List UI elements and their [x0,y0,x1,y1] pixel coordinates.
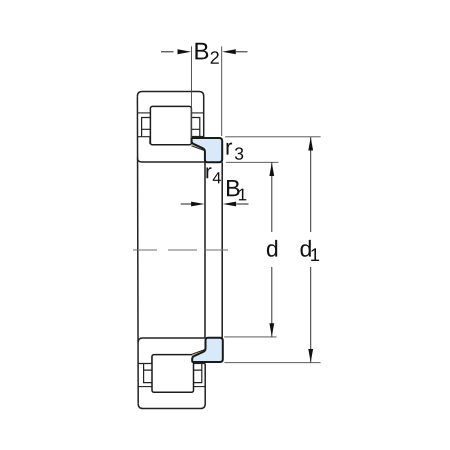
chamfer sliver bottom (tan) [192,349,206,358]
outer ring land line bottom left [138,386,152,388]
label glyph r4-r [206,167,211,178]
roller bottom [152,355,194,393]
label glyph B1-B [227,180,240,196]
d arrow down [269,323,274,336]
B1 arrow right [223,202,236,207]
d1 dimension line upper [310,137,312,232]
label glyph r3-3 [235,147,243,159]
angle ring sleeve left edge [204,162,206,338]
inner ring flange bottom left [138,356,152,364]
chamfer edge line top [191,146,205,151]
label glyph B1-1 [239,189,246,201]
inner ring bore line top [137,158,205,162]
d dimension line lower [271,267,273,337]
roller top [150,106,191,144]
label glyph d-d [267,240,277,257]
cage bottom left [144,364,153,383]
d top extension line [226,161,278,163]
label glyph d1-d [301,240,311,257]
B1 arrow left [181,203,193,205]
chamfer sliver top (tan) [191,142,205,151]
outer ring land line bottom right [194,386,206,388]
angle ring sleeve right edge [221,162,223,338]
bearing left face [136,96,139,403]
label glyph r3-r [227,143,233,155]
label glyph B2-2 [211,51,219,64]
center line (axis) [133,249,229,251]
d1 arrow down [308,349,313,362]
d bottom extension line [224,336,276,338]
d dimension line upper [271,163,273,232]
label glyph r4-4 [213,172,221,183]
outer ring bottom section [138,364,205,409]
B2 arrow right [222,49,236,54]
cage top left [142,118,151,137]
cage top right [191,118,199,137]
d1 dimension line lower [310,267,312,362]
B2 extension line right [221,46,223,136]
outer ring flange tip line top right [191,136,203,138]
label glyph d1-1 [311,248,319,261]
B2 arrow left [161,51,174,53]
B2 extension line left [191,46,193,138]
d1 arrow up [308,137,313,150]
d1 bottom extension line [224,362,320,364]
d arrow up [269,163,274,176]
angle ring HJ cross-section top (blue) [192,138,223,162]
angle ring HJ cross-section bottom (blue) [192,338,223,362]
inner ring flange top left [137,137,150,144]
outer ring top section [137,92,203,138]
outer ring land line top right [191,112,203,114]
chamfer edge line bottom [192,349,206,354]
label glyph B2-B [195,43,208,60]
outer ring land line top left [137,112,150,114]
cage bottom right [194,364,202,383]
d1 top extension line [225,136,320,138]
outer ring flange tip line bottom right [194,363,206,365]
inner ring bore line bottom [138,338,205,342]
